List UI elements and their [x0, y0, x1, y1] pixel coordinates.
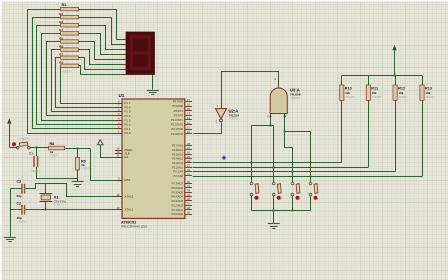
svg-text:P0.1/AD1: P0.1/AD1 [171, 208, 183, 212]
svg-text:P2.3/A11: P2.3/A11 [172, 161, 183, 165]
svg-text:P0.6/AD6: P0.6/AD6 [171, 186, 183, 190]
svg-text:PROGRAM=5.LIN1: PROGRAM=5.LIN1 [121, 224, 147, 228]
svg-text:13: 13 [187, 116, 191, 120]
svg-text:10k: 10k [345, 91, 350, 95]
svg-text:<TEXT>: <TEXT> [290, 96, 301, 100]
svg-text:P3.3/INT1: P3.3/INT1 [171, 118, 184, 122]
svg-text:EA: EA [125, 155, 129, 159]
svg-text:<TEXT>: <TEXT> [62, 70, 73, 74]
svg-text:P2.1/A9: P2.1/A9 [173, 170, 183, 174]
svg-text:39: 39 [187, 210, 191, 214]
svg-text:P0.2/AD2: P0.2/AD2 [171, 203, 183, 207]
svg-text:P3.7/RD: P3.7/RD [173, 100, 183, 104]
svg-text:16: 16 [187, 102, 191, 106]
svg-text:R8: R8 [59, 61, 63, 65]
svg-text:<TEXT>: <TEXT> [82, 167, 92, 171]
svg-text:<TEXT>: <TEXT> [425, 95, 435, 99]
svg-text:P2.4/A12: P2.4/A12 [172, 157, 184, 161]
svg-text:<TEXT>: <TEXT> [229, 117, 240, 121]
svg-text:<TEXT>: <TEXT> [49, 154, 59, 158]
svg-text:R2: R2 [59, 12, 63, 16]
svg-text:R12: R12 [398, 86, 405, 90]
svg-text:10k: 10k [398, 91, 403, 95]
svg-text:<TEXT>: <TEXT> [17, 220, 27, 224]
svg-text:R13: R13 [425, 86, 432, 90]
svg-text:21: 21 [187, 172, 191, 176]
svg-text:RST: RST [125, 178, 131, 182]
svg-text:17: 17 [187, 98, 191, 102]
svg-text:<TEXT>: <TEXT> [54, 203, 64, 207]
svg-text:P3.2/INT0: P3.2/INT0 [171, 123, 184, 127]
svg-text:P0.5/AD5: P0.5/AD5 [171, 190, 183, 194]
svg-text:18: 18 [116, 193, 120, 197]
svg-text:R6: R6 [59, 44, 63, 48]
svg-text:P2.5/A13: P2.5/A13 [172, 152, 184, 156]
svg-text:P2.7/A15: P2.7/A15 [172, 144, 184, 148]
svg-text:C3: C3 [17, 180, 21, 184]
svg-text:<TEXT>: <TEXT> [30, 169, 40, 173]
svg-text:R3: R3 [59, 20, 63, 24]
svg-text:P1.0: P1.0 [125, 131, 131, 135]
svg-text:C2: C2 [17, 201, 21, 205]
svg-text:P2.0/A8: P2.0/A8 [173, 174, 183, 178]
svg-text:10k: 10k [425, 91, 430, 95]
svg-text:30p: 30p [17, 216, 22, 220]
svg-text:R10: R10 [345, 86, 352, 90]
svg-text:30p: 30p [17, 194, 22, 198]
svg-text:1k: 1k [81, 163, 85, 167]
svg-text:P0.7/AD7: P0.7/AD7 [171, 182, 183, 186]
svg-text:R8: R8 [50, 142, 55, 146]
svg-text:<TEXT>: <TEXT> [20, 137, 30, 141]
svg-text:XTAL1: XTAL1 [125, 208, 134, 212]
svg-text:P3.1/TXD: P3.1/TXD [171, 127, 183, 131]
svg-text:12: 12 [187, 121, 191, 125]
svg-text:19: 19 [116, 206, 120, 210]
svg-text:R5: R5 [59, 36, 63, 40]
svg-text:P2.2/A10: P2.2/A10 [172, 165, 184, 169]
svg-text:R1: R1 [62, 2, 68, 7]
svg-text:R11: R11 [371, 86, 378, 90]
svg-text:<TEXT>: <TEXT> [372, 95, 382, 99]
svg-text:P3.0/RXD: P3.0/RXD [171, 132, 183, 136]
svg-text:14: 14 [187, 112, 191, 116]
svg-text:P2.6/A14: P2.6/A14 [172, 148, 184, 152]
svg-text:XTAL2: XTAL2 [125, 195, 134, 199]
svg-text:R4: R4 [59, 28, 63, 32]
svg-text:P0.3/AD3: P0.3/AD3 [171, 199, 183, 203]
svg-text:C1: C1 [29, 152, 33, 156]
svg-text:<TEXT>: <TEXT> [345, 95, 355, 99]
svg-text:31: 31 [116, 153, 120, 157]
svg-text:10k: 10k [372, 91, 377, 95]
svg-text:U1: U1 [119, 93, 125, 98]
svg-text:P3.5/T1: P3.5/T1 [174, 109, 184, 113]
svg-text:10: 10 [187, 130, 191, 134]
svg-text:P3.4/T0: P3.4/T0 [174, 113, 184, 117]
svg-text:P3.6/WR: P3.6/WR [172, 104, 183, 108]
svg-text:15: 15 [187, 107, 191, 111]
svg-text:11: 11 [187, 125, 190, 129]
svg-text:P0.0/AD0: P0.0/AD0 [171, 212, 183, 216]
svg-text:R7: R7 [59, 53, 63, 57]
svg-text:P0.4/AD4: P0.4/AD4 [171, 195, 183, 199]
svg-text:<TEXT>: <TEXT> [398, 95, 408, 99]
